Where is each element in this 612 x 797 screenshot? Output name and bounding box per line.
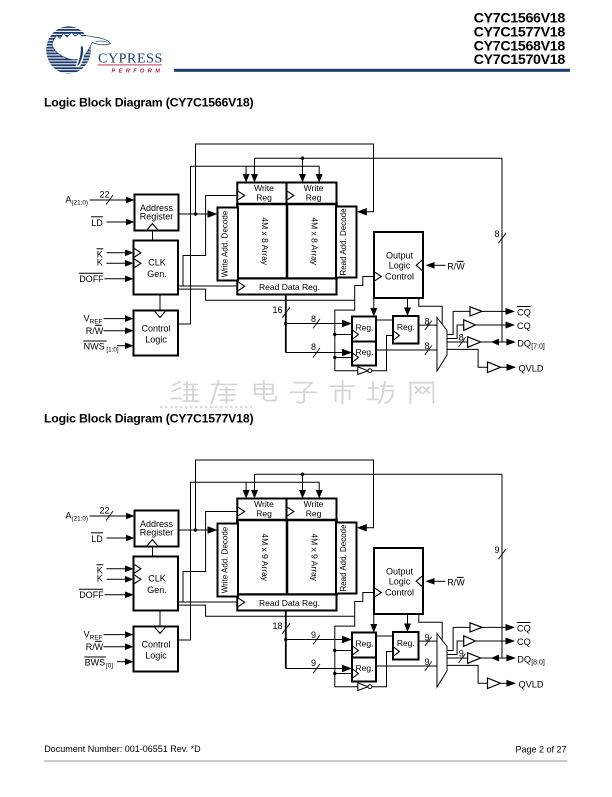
svg-text:DOFF: DOFF [79,590,104,600]
svg-text:Gen.: Gen. [147,585,167,595]
svg-text:9: 9 [311,658,316,668]
footer rule [44,760,568,762]
buffer CQ [464,320,476,331]
svg-text:Control: Control [141,639,170,649]
svg-text:Reg.: Reg. [356,322,374,332]
wire clk gen to read data reg clock [178,285,237,287]
svg-text:Write: Write [304,183,324,193]
wire inverter output to reg C clock [372,336,393,371]
block reg A [352,317,376,342]
wire address register to clk gen [152,231,154,241]
junction reg B clock [333,356,336,359]
svg-text:Logic Block Diagram (CY7C1566V: Logic Block Diagram (CY7C1566V18) [44,95,253,109]
block reg C [393,316,419,344]
block write reg pair [237,183,336,205]
svg-text:Page 2 of 27: Page 2 of 27 [515,745,566,755]
wire K-bar input [107,568,126,570]
svg-text:Reg.: Reg. [397,638,415,648]
wire LD input [107,221,127,223]
svg-text:LD: LD [91,218,103,228]
svg-text:Reg: Reg [306,193,322,203]
svg-text:18: 18 [272,621,282,631]
wire VREF input [104,634,126,636]
block reg B [352,658,376,682]
svg-text:Logic: Logic [389,577,411,587]
wire output logic control to reg C [407,614,409,624]
svg-text:QVLD: QVLD [519,680,544,690]
buffer CQ-bar [470,623,482,632]
block read data reg [237,279,336,295]
cypress logo [44,25,111,75]
wire R/W input [104,330,126,332]
svg-text:CQ: CQ [517,308,531,318]
wire output logic control to mux select [419,298,442,324]
wire clk to output regs [335,300,358,370]
svg-text:Reg: Reg [306,509,322,519]
block memory array 4M x 9 Array [237,520,336,595]
svg-text:Read Add. Decode: Read Add. Decode [339,208,348,276]
svg-text:DOFF: DOFF [79,274,104,284]
junction address line [194,212,197,215]
watermark dotted underline [160,406,252,408]
block write reg pair [237,499,336,521]
wire DOFF input [105,278,126,280]
wire write-select input [117,661,126,663]
svg-text:8: 8 [311,314,316,324]
wire mux to DQ buffer 9 [447,657,468,659]
block read data reg [237,595,336,611]
junction write data B [301,473,304,476]
buffer QVLD [488,678,501,689]
wire clk gen to control logic [159,295,161,311]
svg-text:4M x 8 Array: 4M x 8 Array [310,217,320,265]
wire reg C to mux 9 [419,640,438,642]
junction write data B [301,157,304,160]
wire VREF input [104,318,126,320]
wire R/W-bar to output logic control [434,264,446,266]
wire address register output to write add decode [179,529,209,531]
wire output logic control to reg A [373,614,375,625]
svg-text:R/W: R/W [86,326,104,336]
wire address top route to read add decode [196,460,374,530]
svg-text:CY7C1570V18: CY7C1570V18 [474,52,566,68]
svg-text:Reg: Reg [256,509,272,519]
wire CQ output [475,324,506,326]
wire QVLD output [501,366,508,368]
wire CQ-bar output [482,310,507,312]
wire write-select input [117,345,126,347]
wire clk to output logic control [355,593,374,617]
svg-text:4M x 9 Array: 4M x 9 Array [260,533,270,581]
wire CQ-bar output [482,626,507,628]
svg-text:Document Number: 001-06551 Rev: Document Number: 001-06551 Rev. *D [44,744,201,754]
swan beak detail [96,41,108,42]
svg-text:CLK: CLK [148,573,166,583]
wire A(21:0) input [90,515,127,517]
wire reg C to mux 8 [419,324,438,326]
buffer DQ [468,337,481,348]
svg-text:4M x 8 Array: 4M x 8 Array [260,217,270,265]
wire lower 8-bit bus to reg B [286,352,343,354]
wire clk to write reg clock [183,512,237,603]
wire output logic control to reg C [407,298,409,308]
svg-text:Logic: Logic [145,335,167,345]
svg-text:V: V [84,314,90,324]
svg-text:DQ: DQ [517,338,531,348]
block memory array 4M x 8 Array [237,204,336,279]
wire LD input [107,537,127,539]
wire clk to output regs [335,616,358,686]
svg-text:V: V [84,630,90,640]
wire mux to CQ buffer [447,641,464,655]
svg-text:K: K [97,257,103,267]
block control logic [134,627,179,672]
wire address register to clk gen [152,547,154,557]
wire write data top route B [255,473,503,475]
wire clk to write reg clock [183,196,237,287]
junction reg A clock [333,333,336,336]
svg-text:9: 9 [494,545,499,555]
svg-text:Write: Write [254,499,274,509]
svg-text:Control: Control [385,271,414,281]
wire mux to DQ buffer 8 [447,341,468,343]
svg-text:PERFORM: PERFORM [112,69,164,75]
svg-text:Write: Write [254,183,274,193]
svg-text:Reg: Reg [256,193,272,203]
svg-text:(21:0): (21:0) [72,515,88,522]
wire address top route to read add decode [196,144,374,214]
wire clk gen to read data reg clock [178,601,237,603]
block clk gen [134,557,179,611]
wire reg A to reg C [376,319,393,321]
svg-text:QVLD: QVLD [519,364,544,374]
wire R/W-bar to output logic control [434,580,446,582]
svg-text:BWS: BWS [85,657,106,667]
wire mux to CQ-bar buffer [447,627,470,650]
svg-text:Reg.: Reg. [356,663,374,673]
svg-text:22: 22 [99,505,109,515]
wire lower 9-bit bus to reg B [286,668,343,670]
wire upper 8-bit bus to reg A [284,322,287,325]
svg-text:Control: Control [141,323,170,333]
wire address register output to write add decode [179,213,209,215]
wire reg B to mux 9 [376,665,437,667]
buffer CQ [464,636,476,647]
svg-text:Logic: Logic [145,651,167,661]
wire mux to CQ buffer [447,325,464,339]
block reg B [352,342,376,366]
svg-text:CYPRESS: CYPRESS [98,51,163,66]
wire clk gen to control logic [159,611,161,627]
block address register [135,195,179,231]
block write add decode [218,208,239,281]
wire K input [107,262,126,264]
wire DOFF input [105,594,126,596]
block output logic control [374,232,423,298]
wire clk distribution [178,605,355,616]
svg-text:[1:0]: [1:0] [106,346,119,353]
svg-text:[0]: [0] [106,662,113,669]
svg-text:8: 8 [311,342,316,352]
wire output logic control to reg A [373,298,375,309]
svg-text:REF: REF [90,635,103,642]
wire write control top route C [178,482,319,640]
svg-text:R/W: R/W [447,261,465,271]
wire write control top route C [178,166,319,324]
wire clk to output logic control [355,277,374,301]
block reg A [352,633,376,658]
svg-text:CQ: CQ [517,637,531,647]
wire mux to QVLD buffer [447,665,488,683]
wire clk distribution [178,289,355,300]
block clk gen [134,241,179,295]
block output logic control [374,548,423,614]
svg-text:22: 22 [99,189,109,199]
svg-text:8: 8 [494,229,499,239]
svg-text:16: 16 [272,305,282,315]
wire A(21:0) input [90,199,127,201]
buffer CQ-bar [470,307,482,316]
inverter for reg C clock [358,683,372,691]
svg-text:K: K [97,573,103,583]
wire K input [107,578,126,580]
svg-text:9: 9 [311,630,316,640]
wire reg B to mux 8 [376,349,437,351]
svg-text:Write Add. Decode: Write Add. Decode [221,526,230,593]
svg-text:4M x 9 Array: 4M x 9 Array [310,533,320,581]
block control logic [134,311,179,356]
svg-text:R/W: R/W [447,577,465,587]
svg-text:LD: LD [91,534,103,544]
svg-text:R/W: R/W [86,642,104,652]
wire inverter output to reg C clock [372,652,393,687]
svg-text:Output: Output [386,251,414,261]
svg-text:Gen.: Gen. [147,269,167,279]
block read add decode [336,523,357,594]
svg-text:Read Add. Decode: Read Add. Decode [339,524,348,592]
wire DQ input vertical [501,474,503,658]
svg-text:Reg.: Reg. [356,347,374,357]
wire DQ input vertical [501,158,503,342]
wire DQ bidirectional [481,657,508,659]
logo rule red [98,64,162,66]
svg-text:Output: Output [386,567,414,577]
wire CQ output [475,640,506,642]
svg-text:Register: Register [140,212,174,222]
block reg C [393,632,419,660]
svg-text:Reg.: Reg. [356,638,374,648]
svg-text:CQ: CQ [517,624,531,634]
svg-text:Read Data Reg.: Read Data Reg. [259,282,320,292]
wire upper 9-bit bus to reg A [284,638,287,641]
wire R/W input [104,646,126,648]
block address register [135,511,179,547]
wire DQ bidirectional [481,341,508,343]
junction reg B clock [333,672,336,675]
svg-text:CLK: CLK [148,257,166,267]
wire reg A to reg C [376,635,393,637]
svg-text:[7:0]: [7:0] [531,344,545,351]
wire read data bus 18 [285,611,287,669]
junction address line [194,528,197,531]
inverter for reg C clock [358,367,372,375]
wire read data bus 16 [285,295,287,353]
svg-text:Reg.: Reg. [397,322,415,332]
mux 2:1 [437,318,447,372]
svg-text:[8:0]: [8:0] [531,660,545,667]
buffer QVLD [488,362,501,373]
wire mux to CQ-bar buffer [447,311,470,334]
wire QVLD output [501,682,508,684]
mux 2:1 [437,634,447,688]
svg-text:Register: Register [140,528,174,538]
swan wing curl [77,45,84,66]
svg-text:DQ: DQ [517,654,531,664]
wire mux to QVLD buffer [447,349,488,367]
svg-text:Read Data Reg.: Read Data Reg. [259,598,320,608]
svg-text:Logic Block Diagram (CY7C1577V: Logic Block Diagram (CY7C1577V18) [44,412,253,426]
block write add decode [218,524,239,597]
wire K-bar input [107,252,126,254]
header rule navy [174,69,570,72]
wire write data top route B [255,157,503,159]
buffer DQ [468,653,481,664]
svg-text:CQ: CQ [517,321,531,331]
wire output logic control to mux select [419,614,442,640]
svg-text:Control: Control [385,587,414,597]
svg-text:NWS: NWS [84,341,105,351]
svg-text:REF: REF [90,319,103,326]
block read add decode [336,207,357,278]
junction reg A clock [333,649,336,652]
svg-text:Write: Write [304,499,324,509]
svg-text:(21:0): (21:0) [72,199,88,206]
svg-text:Logic: Logic [389,261,411,271]
watermark gray text [171,381,433,404]
svg-text:Write Add. Decode: Write Add. Decode [221,210,230,277]
